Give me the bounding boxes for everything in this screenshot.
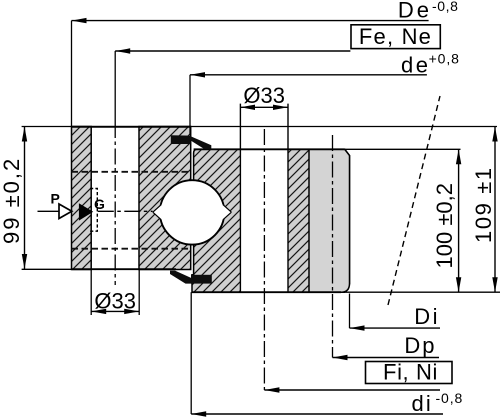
- svg-text:-0,8: -0,8: [432, 0, 459, 14]
- svg-text:di: di: [412, 391, 434, 416]
- inner ring bottom edge + 99 extension: [22, 268, 176, 270]
- outer bolt hole centerline (dash-dot): [263, 129, 265, 390]
- svg-text:+0,8: +0,8: [429, 51, 460, 67]
- raceway notch right: [222, 204, 232, 221]
- dimension 99 ±0,2: [24, 127, 26, 270]
- svg-text:109 ±1: 109 ±1: [471, 166, 496, 243]
- svg-text:Di: Di: [414, 304, 440, 329]
- svg-text:Fi, Ni: Fi, Ni: [383, 360, 438, 385]
- svg-text:Ø33: Ø33: [94, 289, 136, 314]
- label box Fe, Ne: [351, 25, 440, 49]
- dimension Dp leader: [333, 357, 440, 359]
- P open triangle: [59, 204, 72, 219]
- inner ring left strip (hatched): [72, 127, 92, 270]
- gear rim band (plain gray): [309, 149, 350, 292]
- outer ring top edge: [194, 148, 345, 150]
- hidden hole dashed line upper: [72, 171, 190, 173]
- top hole dimension Ø33: [240, 106, 288, 108]
- svg-text:Ø33: Ø33: [243, 83, 285, 108]
- outer ring bolt hole (white column): [240, 149, 288, 293]
- bottom seal bar (black): [191, 275, 212, 284]
- outer ring bottom edge extension: [344, 291, 500, 293]
- gear pitch line (dash-dot): [332, 135, 334, 358]
- svg-text:De: De: [398, 0, 432, 23]
- dimension 109 ±1: [494, 127, 496, 293]
- svg-text:P: P: [51, 191, 60, 207]
- G filled triangle: [79, 203, 93, 220]
- grease port P line: [38, 210, 60, 212]
- raceway notch left: [153, 204, 163, 221]
- dimension 100 ±0,2: [458, 149, 460, 292]
- svg-text:G: G: [94, 196, 105, 212]
- bottom seal strap (black): [170, 271, 194, 284]
- outer ring hole edge left: [239, 104, 241, 293]
- svg-text:99 ±0,2: 99 ±0,2: [0, 157, 24, 244]
- outer ring top extension for 100 dim: [345, 148, 461, 150]
- dimension de leader line: [190, 74, 427, 76]
- de extension line: [189, 75, 191, 135]
- svg-text:Dp: Dp: [404, 333, 436, 358]
- outer ring body (hatched): [192, 149, 350, 292]
- dimension di leader: [191, 413, 443, 415]
- svg-text:100 ±0,2: 100 ±0,2: [432, 183, 457, 268]
- inner bolt hole centerline (dash-dot): [114, 51, 116, 122]
- inner ring right block (hatched): [139, 127, 191, 270]
- svg-text:-0,8: -0,8: [436, 390, 464, 406]
- svg-text:de: de: [401, 53, 430, 78]
- outer ring bottom edge (thick): [192, 291, 341, 293]
- dimension De leader line: [72, 20, 429, 22]
- top seal strap: [190, 136, 212, 150]
- svg-text:Fe, Ne: Fe, Ne: [359, 24, 432, 49]
- ball: [160, 180, 224, 244]
- De extension line: [71, 21, 73, 127]
- hidden hole dashed line lower: [72, 248, 190, 250]
- outer ring hole edge right: [287, 104, 289, 293]
- top seal (black): [171, 135, 191, 144]
- inner ring top edge + 109 extension line: [22, 126, 497, 128]
- dimension Fi,Ni leader: [264, 389, 440, 391]
- dimension Fe,Ne leader line: [115, 50, 350, 52]
- dimension Di leader: [350, 327, 441, 329]
- diagonal break dashed line: [388, 96, 440, 305]
- bottom hole dimension Ø33: [90, 270, 92, 316]
- G port dashed outline: [90, 189, 97, 232]
- horizontal centerline (dash-dot): [98, 210, 153, 212]
